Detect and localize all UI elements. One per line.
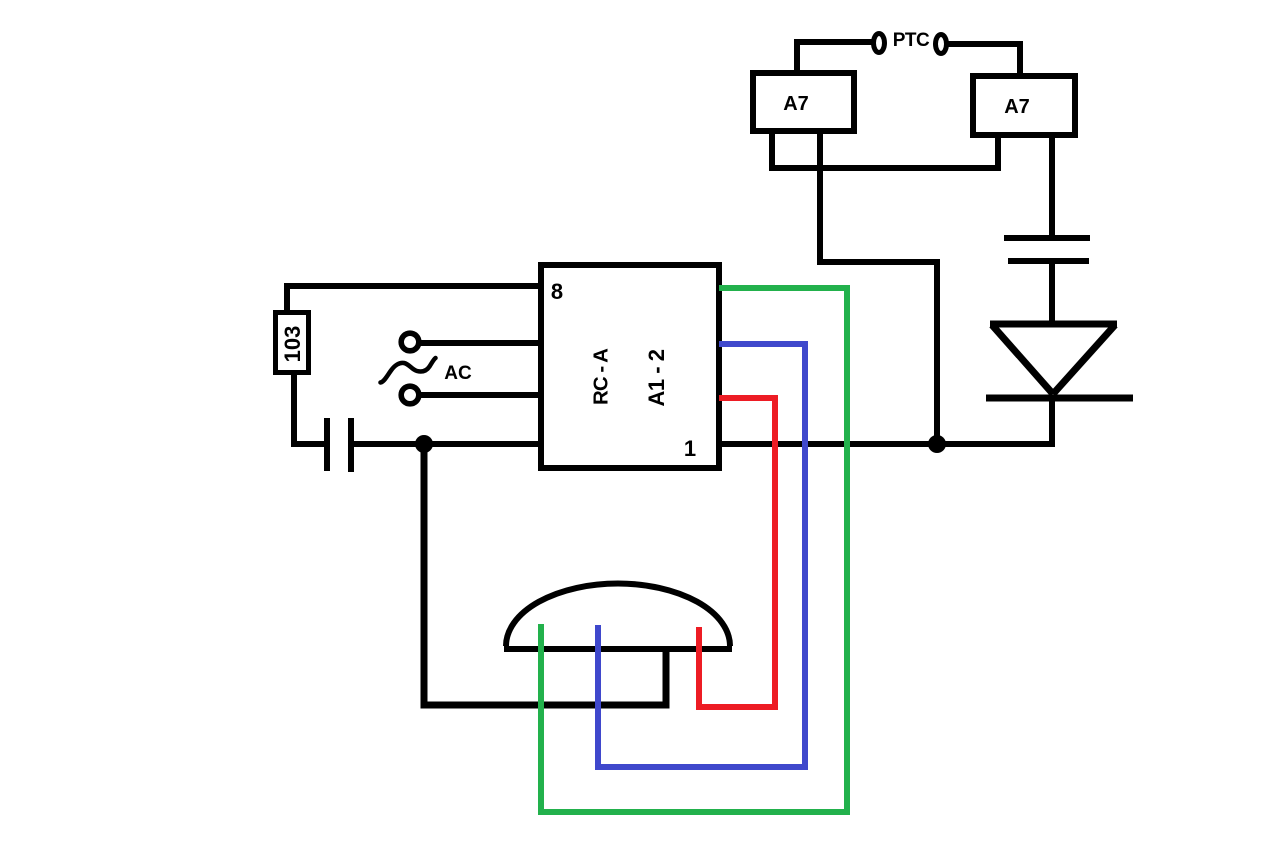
capacitor C2 — [1004, 238, 1090, 261]
wire pin8 loop to resistor — [287, 286, 541, 313]
svg-text:1: 1 — [684, 436, 696, 461]
relay A7 left — [753, 73, 854, 131]
wire PTC-left to A7-left top — [797, 42, 873, 71]
wire junction to motor common — [424, 444, 666, 705]
wire AC bottom to IC — [420, 392, 541, 398]
wire resistor to capacitor C1 — [294, 372, 327, 444]
wire main rail right — [719, 441, 1055, 447]
svg-text:A7: A7 — [783, 93, 809, 115]
wire main rail left — [351, 441, 544, 447]
wire A7-left bottom leg 2 — [820, 132, 937, 444]
IC U1 RC-A — [541, 265, 719, 468]
wire D1 to main rail — [1049, 398, 1055, 447]
node junction right — [928, 435, 946, 453]
motor M1 dome — [504, 584, 732, 650]
capacitor C1 — [327, 418, 351, 472]
svg-text:8: 8 — [551, 279, 563, 304]
svg-text:AC: AC — [444, 363, 472, 384]
node PTC terminal left — [874, 34, 885, 53]
AC source terminal bottom — [401, 386, 419, 404]
svg-text:A7: A7 — [1004, 96, 1030, 118]
wire green winding — [541, 288, 847, 812]
svg-text:RC - A: RC - A — [590, 348, 613, 405]
wire red winding — [699, 398, 775, 707]
wire A7-right to capacitor C2 — [1049, 136, 1055, 238]
resistor 103 — [276, 313, 309, 373]
svg-text:A1 - 2: A1 - 2 — [644, 349, 669, 406]
node junction left — [415, 435, 433, 453]
node PTC terminal right — [936, 35, 947, 54]
diode D1 — [986, 324, 1133, 398]
AC source terminal top — [401, 333, 419, 351]
svg-text:103: 103 — [280, 326, 305, 363]
AC squiggle — [381, 358, 436, 383]
wire blue winding — [598, 344, 805, 767]
wire C2 to diode D1 — [1049, 261, 1055, 326]
relay A7 right — [973, 76, 1075, 135]
wire A7-left bottom leg 1 — [772, 132, 998, 168]
svg-text:PTC: PTC — [893, 30, 930, 51]
wire PTC-right to A7-right top — [948, 44, 1020, 74]
wire AC top to IC — [420, 340, 541, 346]
